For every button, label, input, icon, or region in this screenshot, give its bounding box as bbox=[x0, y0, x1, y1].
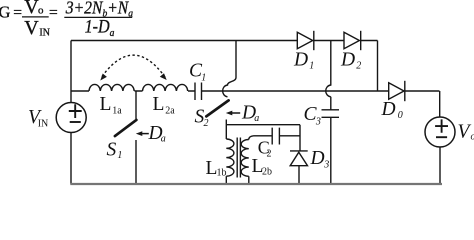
svg-text:D: D bbox=[310, 148, 325, 169]
svg-text:2: 2 bbox=[204, 118, 209, 129]
svg-text:=: = bbox=[13, 4, 22, 21]
svg-text:1-Da: 1-Da bbox=[85, 16, 115, 39]
svg-text:V: V bbox=[24, 17, 39, 39]
svg-text:1: 1 bbox=[201, 73, 206, 84]
svg-text:3: 3 bbox=[323, 160, 329, 171]
svg-text:1: 1 bbox=[309, 60, 314, 71]
svg-text:D: D bbox=[381, 99, 396, 120]
svg-text:IN: IN bbox=[39, 27, 50, 38]
svg-text:IN: IN bbox=[38, 119, 49, 130]
svg-text:L: L bbox=[153, 94, 165, 115]
svg-text:a: a bbox=[161, 134, 166, 145]
svg-text:2: 2 bbox=[267, 148, 272, 159]
svg-text:G: G bbox=[0, 3, 11, 22]
svg-text:V: V bbox=[458, 122, 472, 143]
svg-text:o: o bbox=[471, 131, 474, 142]
svg-text:1: 1 bbox=[117, 150, 122, 161]
svg-text:D: D bbox=[293, 49, 308, 70]
svg-text:S: S bbox=[107, 139, 117, 160]
svg-text:D: D bbox=[340, 49, 355, 70]
svg-text:3: 3 bbox=[315, 116, 321, 127]
svg-text:1b: 1b bbox=[217, 168, 227, 179]
svg-text:1a: 1a bbox=[112, 105, 122, 116]
svg-text:o: o bbox=[38, 4, 44, 16]
svg-text:a: a bbox=[254, 113, 259, 124]
svg-text:=: = bbox=[49, 4, 58, 21]
svg-text:0: 0 bbox=[398, 110, 403, 121]
svg-text:2: 2 bbox=[356, 60, 361, 71]
svg-text:2b: 2b bbox=[262, 167, 272, 178]
svg-text:2a: 2a bbox=[165, 105, 175, 116]
svg-text:L: L bbox=[100, 94, 112, 115]
